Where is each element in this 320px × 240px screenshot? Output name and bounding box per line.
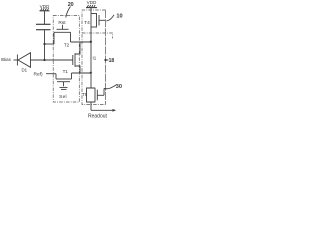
svg-text:T5: T5 <box>82 92 88 97</box>
svg-text:I1: I1 <box>93 56 97 61</box>
svg-text:Ref): Ref) <box>34 71 43 77</box>
svg-text:18: 18 <box>109 58 115 64</box>
svg-text:D1: D1 <box>22 68 28 73</box>
svg-text:10: 10 <box>116 13 122 19</box>
svg-text:30: 30 <box>116 84 122 90</box>
svg-text:Readout: Readout <box>88 113 108 119</box>
svg-text:T4: T4 <box>84 20 90 26</box>
svg-text:20: 20 <box>68 2 74 8</box>
svg-text:T1: T1 <box>63 69 69 74</box>
svg-text:Rst: Rst <box>58 20 66 26</box>
svg-text:T2: T2 <box>64 42 70 47</box>
svg-text:VDD: VDD <box>87 0 97 5</box>
svg-text:Sel: Sel <box>59 94 67 100</box>
svg-text:IBias: IBias <box>1 57 12 62</box>
svg-text:VDD: VDD <box>40 4 50 9</box>
